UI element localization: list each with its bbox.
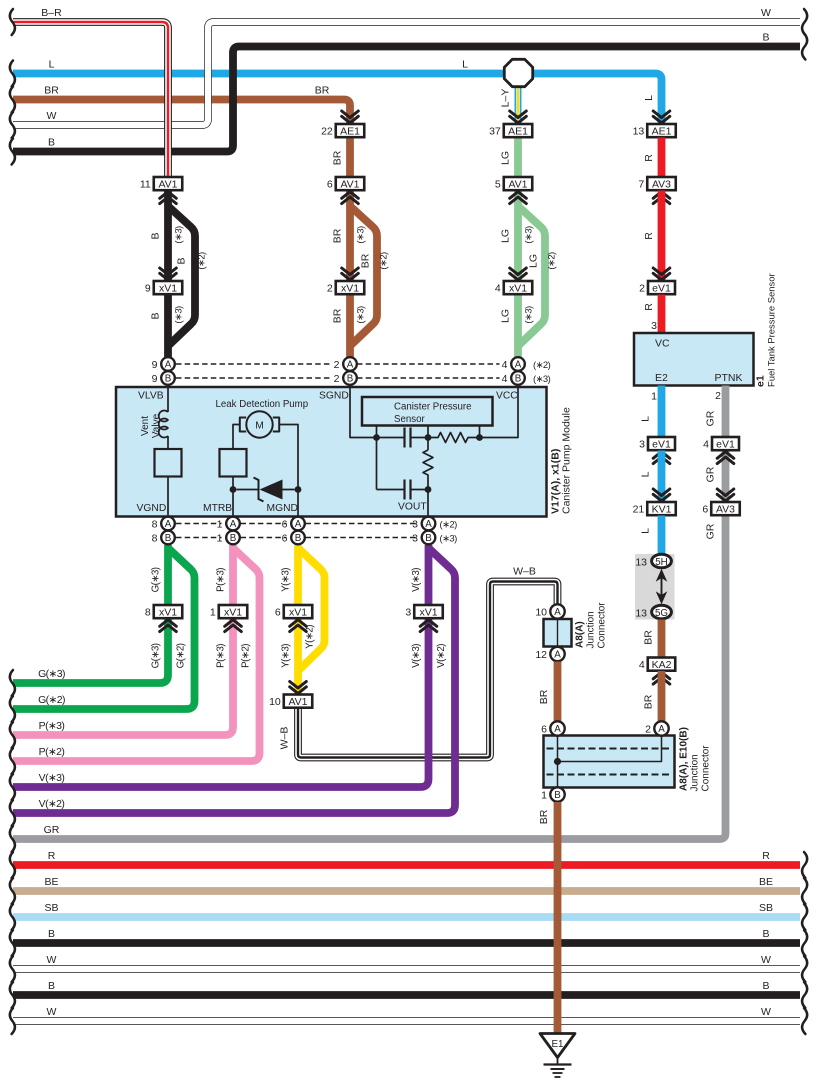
svg-text:eV1: eV1 (716, 438, 735, 450)
break left (10, 852, 15, 878)
svg-text:Connector: Connector (597, 602, 608, 649)
wire B-R (black-red) top-left bus turning down into connector AV1 pin 11 (13, 22, 168, 177)
connector 2 xV1 (336, 281, 365, 294)
chevron arrows above 9 xV1 (160, 268, 177, 280)
wire BR from 5G to 4 KA2 (658, 620, 666, 658)
wire P(*3) main from pin 1B to bus (13, 545, 233, 735)
svg-text:6: 6 (541, 724, 547, 736)
wire motor left to pump driver (233, 425, 240, 450)
pin 6A of junction (550, 721, 564, 735)
chevron arrows below 4 KA2 (653, 672, 670, 684)
svg-text:B: B (762, 32, 769, 44)
wire MTRB node down (232, 490, 234, 517)
svg-text:L: L (640, 416, 652, 422)
svg-text:B: B (48, 137, 55, 149)
wire R bus (13, 861, 800, 869)
svg-text:3: 3 (412, 519, 418, 531)
wire BR from 1B to ground E1 (554, 802, 562, 1034)
break symbol GR left (10, 826, 15, 852)
connector 2 eV1 (648, 281, 675, 294)
svg-text:G(∗3): G(∗3) (38, 668, 65, 680)
pin 2B (343, 371, 357, 385)
svg-text:BR: BR (360, 253, 372, 268)
svg-text:8: 8 (145, 606, 151, 618)
wire BR from 12A to junction pin 6A (554, 662, 562, 722)
svg-text:GR: GR (705, 466, 717, 482)
dashed internal row 1 (547, 748, 672, 750)
svg-text:(∗3): (∗3) (174, 306, 185, 324)
pin 6A (291, 517, 305, 531)
svg-text:1: 1 (210, 606, 216, 618)
capacitor C2 plates (405, 480, 411, 500)
break left (10, 774, 15, 800)
sensor drop right (479, 426, 481, 438)
svg-text:AV3: AV3 (716, 503, 735, 515)
connector 4 KA2 (648, 658, 676, 671)
chevron arrows below 3 eV1 (653, 452, 670, 464)
svg-text:VOUT: VOUT (398, 502, 427, 513)
svg-text:11: 11 (140, 178, 151, 190)
svg-text:21: 21 (633, 503, 645, 515)
break right (802, 982, 807, 1008)
svg-text:VC: VC (655, 338, 670, 350)
svg-text:R: R (762, 850, 770, 862)
svg-text:V(∗3): V(∗3) (411, 644, 422, 668)
pin 9B (161, 371, 175, 385)
svg-text:4: 4 (502, 359, 508, 371)
node dot VOUT (425, 486, 432, 493)
connector 6 AV3 (711, 502, 740, 515)
svg-text:Canister Pump Module: Canister Pump Module (561, 407, 573, 514)
terminal 5H (652, 554, 672, 568)
svg-text:MTRB: MTRB (203, 503, 232, 514)
svg-text:AV3: AV3 (652, 178, 671, 190)
svg-text:xV1: xV1 (159, 282, 177, 294)
svg-text:1: 1 (541, 790, 547, 802)
svg-text:G(∗2): G(∗2) (38, 694, 65, 706)
svg-text:KV1: KV1 (652, 503, 672, 515)
wire BR branch (*2) (350, 206, 377, 345)
svg-text:Junction: Junction (690, 754, 701, 791)
svg-text:BR: BR (332, 150, 344, 165)
vent valve coil (159, 411, 168, 438)
svg-text:L–Y: L–Y (500, 89, 512, 108)
chevron arrows above 2 xV1 (342, 268, 359, 280)
chevron arrows above 2 eV1 (653, 268, 670, 280)
svg-text:2: 2 (327, 282, 333, 294)
svg-text:A: A (658, 724, 665, 735)
svg-text:A: A (554, 650, 561, 661)
wire W bus 2 (13, 1017, 800, 1025)
wire R from AV3 to eV1 (658, 191, 666, 282)
svg-text:B: B (150, 312, 162, 319)
svg-text:V(∗2): V(∗2) (436, 644, 447, 668)
svg-text:W: W (761, 954, 771, 966)
break right (802, 1008, 807, 1034)
svg-text:A: A (554, 724, 561, 735)
svg-text:e1: e1 (755, 375, 767, 387)
svg-text:(∗3): (∗3) (533, 374, 551, 385)
resistor R1 horizontal (428, 433, 480, 443)
wire LG main from 5 AV1 to pin 4A (514, 191, 522, 361)
svg-text:9: 9 (152, 359, 158, 371)
svg-text:(∗2): (∗2) (379, 252, 390, 270)
wire SGND into sensor rail (350, 387, 377, 438)
node dot MTRB (230, 486, 237, 493)
svg-text:AV1: AV1 (340, 178, 359, 190)
svg-text:BR: BR (538, 809, 550, 824)
junction dot (554, 758, 561, 765)
wire SB bus (13, 913, 800, 921)
connector 1 xV1 (219, 605, 248, 618)
svg-text:G(∗2): G(∗2) (176, 643, 187, 668)
stub wires at module bottom pins (168, 517, 429, 546)
pin 1B of junction (550, 787, 564, 801)
svg-text:SB: SB (759, 902, 773, 914)
pin 9A (161, 357, 175, 371)
connector 6 AV1 (336, 177, 365, 190)
pin 4A (511, 357, 525, 371)
connector 13 AE1 (647, 124, 676, 137)
svg-text:xV1: xV1 (341, 282, 359, 294)
svg-text:V(∗3): V(∗3) (39, 772, 65, 784)
zener diode D1 wires (236, 489, 294, 491)
svg-text:B: B (347, 374, 354, 385)
wire B (black) right bus turning down to left B bus (13, 47, 800, 152)
svg-text:W: W (47, 110, 57, 122)
svg-text:3: 3 (405, 606, 411, 618)
wire B main from 11 AV1 to pin 9A (164, 191, 172, 361)
chevron arrows above 37 AE1 (510, 111, 527, 123)
ground E1 triangle (540, 1034, 575, 1058)
svg-text:W: W (47, 1006, 57, 1018)
canister pressure sensor box (362, 397, 493, 426)
wire VCC into rail (480, 387, 519, 438)
svg-text:PTNK: PTNK (715, 372, 743, 384)
svg-text:V(∗2): V(∗2) (39, 798, 65, 810)
wire L (blue) horizontal bus into node and down to connector AE1 pin 13 (13, 74, 662, 125)
connector 22 AE1 (336, 124, 365, 137)
connector 8 xV1 (154, 605, 183, 618)
connector 4 eV1 (GR) (712, 437, 739, 450)
svg-text:B: B (762, 928, 769, 940)
svg-text:P(∗2): P(∗2) (241, 644, 252, 668)
pin 8A (161, 517, 175, 531)
svg-text:R: R (643, 303, 655, 311)
chevron arrows below 6 xV1 (290, 620, 307, 632)
svg-text:5H: 5H (655, 557, 668, 568)
break right (802, 852, 807, 878)
svg-text:A: A (515, 360, 522, 371)
svg-text:A8(A): A8(A) (575, 621, 586, 648)
svg-text:(∗2): (∗2) (547, 252, 558, 270)
svg-text:L: L (640, 528, 652, 534)
svg-text:(∗3): (∗3) (524, 306, 535, 324)
svg-text:2: 2 (334, 359, 340, 371)
svg-text:2: 2 (334, 373, 340, 385)
svg-text:L: L (49, 59, 55, 71)
connector 5 AV1 (504, 177, 533, 190)
svg-text:2: 2 (715, 390, 721, 402)
svg-text:4: 4 (502, 373, 508, 385)
pin 12A of A8(A) (550, 647, 564, 661)
wire Y(*2) branch rejoining (298, 548, 325, 670)
svg-text:3: 3 (639, 438, 645, 450)
break symbol left bus (10, 9, 15, 35)
svg-text:2: 2 (639, 282, 645, 294)
break left (10, 670, 15, 696)
svg-text:A: A (425, 519, 432, 530)
wire R from AE1 to AV3 (658, 138, 666, 178)
svg-text:13: 13 (635, 557, 647, 569)
wire L from KV1 to junction block 5H (658, 516, 666, 555)
svg-text:(∗3): (∗3) (440, 534, 458, 545)
svg-text:P(∗3): P(∗3) (216, 568, 227, 592)
svg-text:22: 22 (321, 125, 333, 137)
svg-text:A: A (554, 607, 561, 618)
svg-text:1: 1 (217, 533, 223, 545)
pin 6B (291, 531, 305, 545)
shield junction block 5H/5G background (635, 554, 675, 620)
capacitor C1 wires (377, 437, 429, 439)
break symbol right bus (802, 34, 807, 60)
svg-text:VCC: VCC (496, 391, 518, 402)
junction connector A8(A) box (544, 619, 572, 647)
node dot rail left (373, 434, 380, 441)
break left (10, 748, 15, 774)
wire LG branch (*2) (518, 206, 545, 345)
svg-text:LG: LG (500, 229, 512, 243)
sensor drop left (376, 426, 378, 490)
svg-text:Y(∗3): Y(∗3) (281, 568, 292, 592)
svg-text:(∗3): (∗3) (356, 306, 367, 324)
svg-text:A8(A), E10(B): A8(A), E10(B) (679, 727, 690, 791)
svg-text:(∗2): (∗2) (440, 520, 458, 531)
svg-text:9: 9 (145, 282, 151, 294)
svg-text:7: 7 (638, 178, 644, 190)
wire L-Y striped from node to 37 AE1 (515, 86, 522, 124)
wire LG from AE1 to AV1 (514, 138, 522, 178)
svg-text:W–B: W–B (279, 727, 291, 750)
node dot rail right (476, 434, 483, 441)
wire L from sensor E2 down to 3 eV1 (658, 386, 666, 438)
wire GR from sensor PTNK down, across bottom to left bus (13, 386, 726, 840)
vent valve wire lower to VGND (167, 477, 169, 517)
svg-text:1: 1 (217, 519, 223, 531)
junction connector A8(A) E10(B) box (544, 736, 675, 788)
svg-text:9: 9 (152, 373, 158, 385)
svg-text:12: 12 (535, 649, 547, 661)
svg-text:(∗2): (∗2) (197, 252, 208, 270)
svg-text:3: 3 (651, 320, 657, 332)
pin 4B (511, 371, 525, 385)
svg-text:E1: E1 (552, 1039, 564, 1050)
svg-text:B: B (176, 257, 188, 264)
svg-text:6: 6 (702, 503, 708, 515)
svg-text:Y(∗3): Y(∗3) (281, 644, 292, 668)
svg-text:5G: 5G (655, 608, 668, 619)
connector 21 KV1 (647, 502, 676, 515)
svg-text:A: A (347, 360, 354, 371)
svg-text:BR: BR (44, 85, 59, 97)
svg-text:R: R (48, 850, 56, 862)
svg-text:(∗3): (∗3) (524, 226, 535, 244)
wire G(*3) main from pin 8B to bus (13, 545, 168, 683)
break left (10, 1008, 15, 1034)
svg-text:BR: BR (315, 85, 330, 97)
svg-text:G(∗3): G(∗3) (151, 643, 162, 668)
internal wire 6A to 1B (557, 736, 559, 788)
chevron arrows above 21 KV1 (653, 489, 670, 501)
motor brush left (240, 418, 246, 432)
wire B bus (13, 939, 800, 947)
svg-text:6: 6 (282, 533, 288, 545)
svg-text:5: 5 (495, 178, 501, 190)
wire BE bus (13, 887, 800, 895)
wire L between eV1 and KV1 (658, 451, 666, 503)
motor brush right (273, 418, 279, 432)
connector 11 AV1 (154, 177, 183, 190)
svg-text:Fuel Tank Pressure Sensor: Fuel Tank Pressure Sensor (767, 273, 778, 387)
svg-text:1: 1 (651, 391, 657, 403)
svg-text:B: B (515, 374, 522, 385)
break left (10, 696, 15, 722)
break left (10, 904, 15, 930)
stub wires at module top pins (168, 364, 518, 387)
internal wire junction to 2A (558, 736, 662, 762)
wire W bus (13, 965, 800, 973)
svg-text:AE1: AE1 (508, 125, 528, 137)
chevron arrows above 10 AV1 (290, 682, 307, 694)
break right (802, 956, 807, 982)
dashed link top row B (176, 377, 332, 379)
svg-text:eV1: eV1 (652, 438, 671, 450)
svg-text:GR: GR (44, 824, 60, 836)
svg-text:M: M (255, 421, 264, 432)
svg-text:Canister Pressure: Canister Pressure (394, 402, 472, 413)
svg-text:(∗3): (∗3) (174, 226, 185, 244)
wire VOUT down (427, 490, 429, 517)
svg-text:L: L (640, 471, 652, 477)
svg-text:10: 10 (269, 696, 281, 708)
break right (802, 878, 807, 904)
fuel tank pressure sensor box e1 (634, 333, 754, 386)
svg-text:W: W (761, 7, 771, 19)
node dot MGND (295, 486, 302, 493)
dashed link top row A (176, 363, 332, 365)
svg-text:B: B (48, 980, 55, 992)
svg-text:LG: LG (500, 151, 512, 165)
break left (10, 982, 15, 1008)
capacitor C2 wires (377, 489, 429, 491)
svg-text:A: A (165, 360, 172, 371)
dashed link bottom row B (176, 537, 222, 539)
svg-text:B: B (230, 533, 237, 544)
pump driver body (220, 449, 247, 477)
wire W (white) right bus turning down to left W bus (13, 22, 800, 125)
svg-text:R: R (643, 154, 655, 162)
svg-text:B: B (762, 980, 769, 992)
svg-text:Sensor: Sensor (394, 414, 425, 425)
svg-text:BE: BE (44, 876, 58, 888)
pin 8B (161, 531, 175, 545)
break left (10, 800, 15, 826)
break left (10, 930, 15, 956)
wire P(*2) branch to bus (13, 548, 260, 761)
svg-text:10: 10 (535, 607, 547, 619)
svg-text:LG: LG (528, 254, 540, 268)
wire G(*2) branch to bus (13, 548, 195, 709)
svg-text:VGND: VGND (137, 503, 167, 514)
chevron arrows above 6 AV3 (717, 489, 734, 501)
dashed link bottom row A (176, 523, 222, 525)
vent valve wire mid (167, 436, 169, 449)
svg-text:eV1: eV1 (652, 282, 671, 294)
connector 37 AE1 (504, 124, 533, 137)
node dot rail mid (425, 434, 432, 441)
double-headed arrow between 5H and 5G (656, 569, 668, 604)
svg-text:4: 4 (703, 438, 709, 450)
wire Y(*3) main from pin 6B to 10 AV1 (294, 545, 302, 695)
break left (10, 722, 15, 748)
svg-text:P(∗2): P(∗2) (39, 746, 65, 758)
svg-text:P(∗3): P(∗3) (216, 644, 227, 668)
svg-text:xV1: xV1 (419, 606, 437, 618)
wire V(*2) branch to bus (13, 548, 455, 813)
svg-text:GR: GR (705, 523, 717, 539)
wire BR from AE1 to AV1 (346, 138, 354, 178)
break left (10, 878, 15, 904)
terminal 5G (652, 605, 672, 619)
svg-text:AV1: AV1 (508, 178, 527, 190)
svg-text:A: A (230, 519, 237, 530)
svg-text:BR: BR (643, 694, 655, 709)
pin 3B (422, 531, 436, 545)
chevron arrows above 4 xV1 (510, 268, 527, 280)
svg-text:B: B (295, 533, 302, 544)
wire motor right to MGND node (279, 425, 298, 490)
break symbol left bus (10, 112, 15, 138)
break symbol left bus (10, 87, 15, 113)
svg-text:KA2: KA2 (652, 659, 672, 671)
svg-text:(∗3): (∗3) (356, 226, 367, 244)
pin 10A of A8(A) (550, 604, 564, 618)
wire B branch (*2) (168, 206, 195, 345)
svg-text:AV1: AV1 (288, 696, 307, 708)
canister pump module box V17(A) x1(B) (116, 387, 547, 517)
svg-text:6: 6 (282, 519, 288, 531)
svg-text:B–R: B–R (41, 7, 62, 19)
svg-text:B: B (165, 374, 172, 385)
svg-text:GR: GR (705, 410, 717, 426)
svg-text:B: B (165, 533, 172, 544)
chevron arrows above 22 AE1 (342, 111, 359, 123)
svg-text:B: B (48, 928, 55, 940)
pin 1B (226, 531, 240, 545)
svg-text:P(∗3): P(∗3) (39, 720, 65, 732)
connector 10 AV1 (284, 695, 313, 708)
svg-text:3: 3 (412, 533, 418, 545)
svg-text:R: R (643, 232, 655, 240)
chevron arrows below 4 eV1 (717, 452, 734, 464)
svg-text:BR: BR (332, 308, 344, 323)
svg-text:B: B (150, 232, 162, 239)
svg-text:VLVB: VLVB (138, 391, 164, 402)
svg-text:W–B: W–B (513, 566, 536, 578)
internal wire through A8(A) (557, 619, 559, 647)
vent valve body (155, 449, 182, 477)
svg-text:AV1: AV1 (158, 178, 177, 190)
